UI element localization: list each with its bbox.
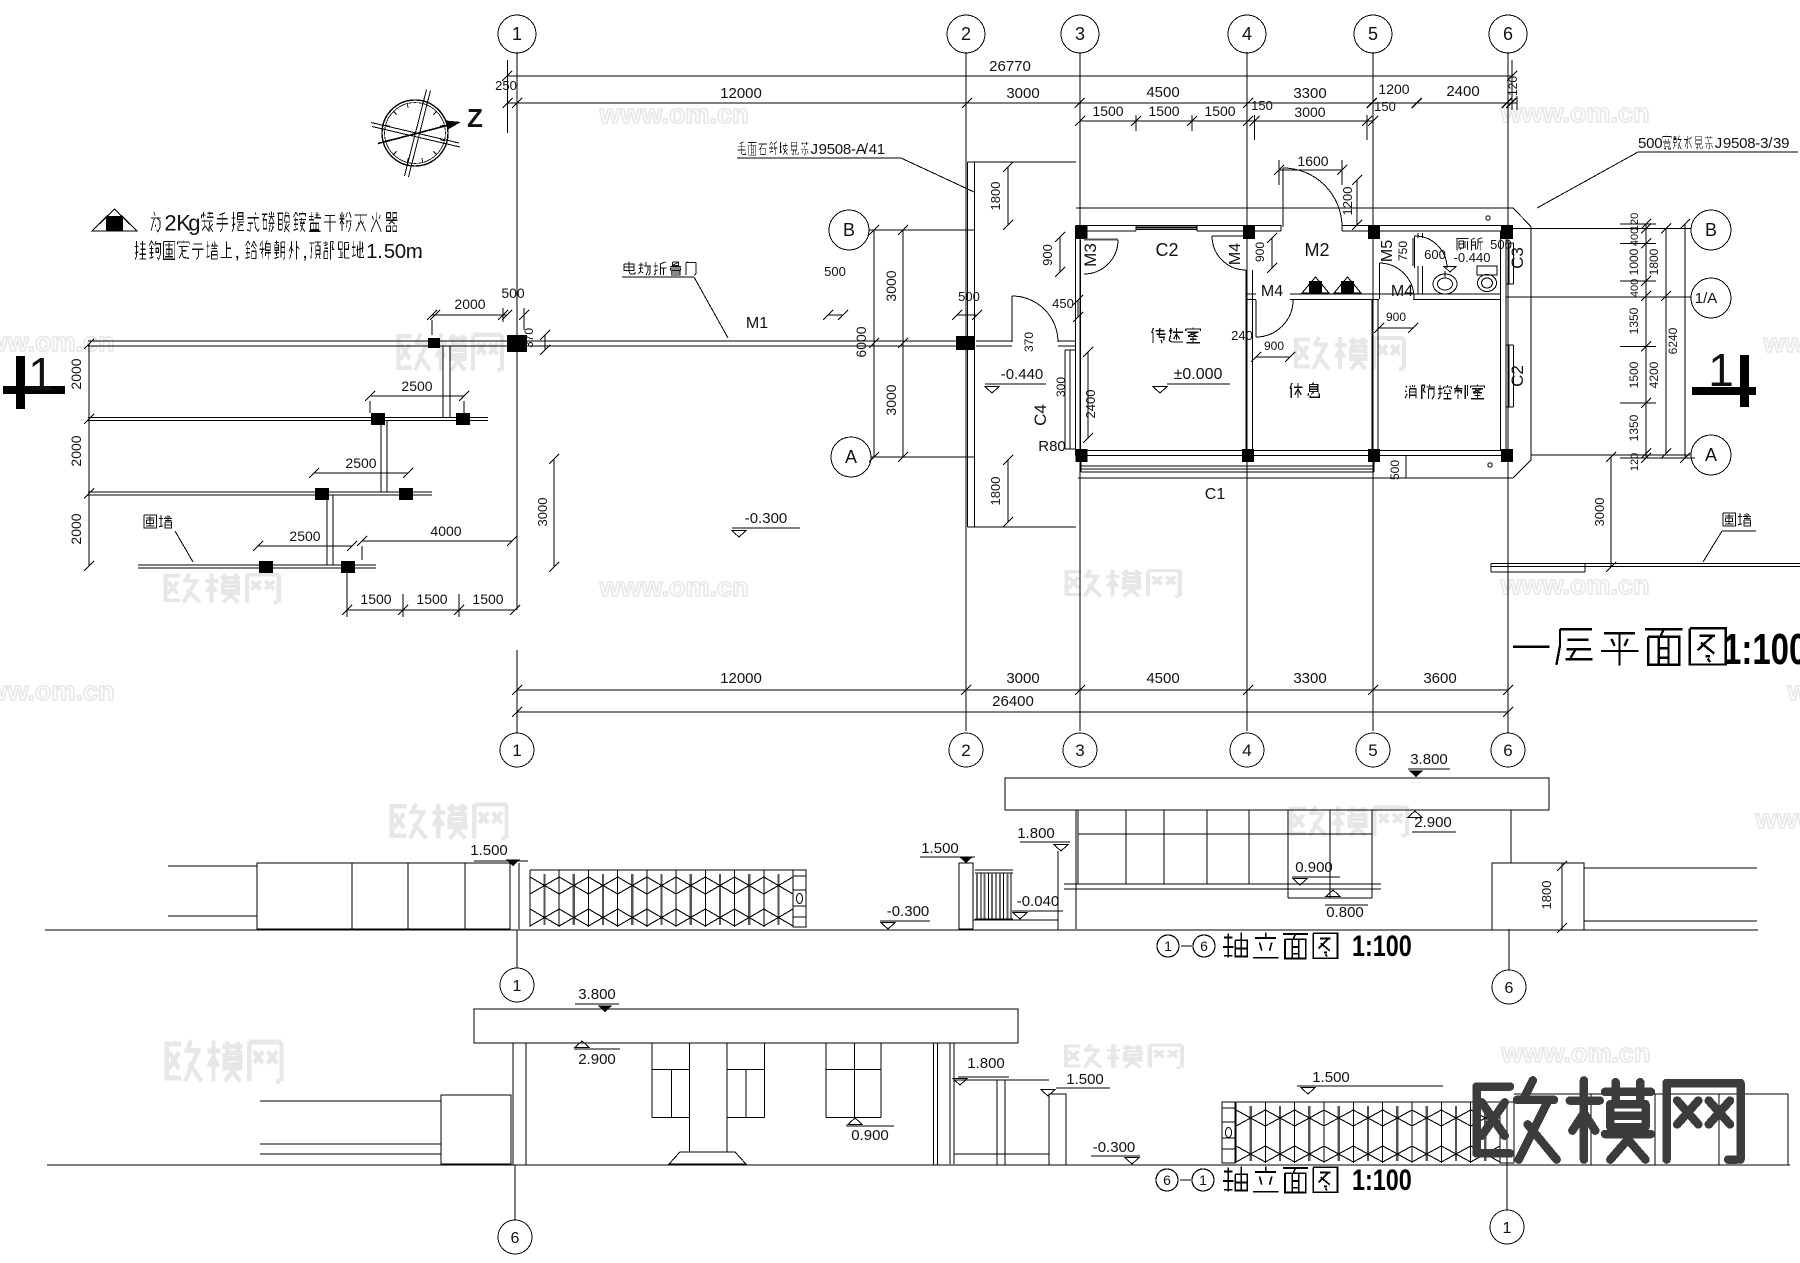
- svg-text:5: 5: [1731, 135, 1739, 152]
- svg-text:2500: 2500: [345, 455, 376, 471]
- svg-text:C4: C4: [1031, 404, 1050, 426]
- svg-text:3000: 3000: [883, 270, 899, 301]
- svg-text:M4: M4: [1391, 283, 1413, 300]
- svg-text:Z: Z: [467, 103, 483, 133]
- svg-text:,: ,: [302, 240, 308, 263]
- svg-text:C1: C1: [1205, 486, 1226, 503]
- title elev1: [1157, 935, 1179, 957]
- svg-text:M4: M4: [1227, 243, 1244, 265]
- svg-text:5: 5: [1368, 24, 1378, 44]
- left fence band: [168, 865, 257, 867]
- svg-text:1: 1: [877, 141, 885, 158]
- svg-text:1500: 1500: [1204, 103, 1235, 119]
- svg-text:3: 3: [1075, 741, 1084, 760]
- svg-text:2: 2: [961, 741, 970, 760]
- svg-text:8: 8: [1747, 135, 1755, 152]
- svg-text:1: 1: [512, 24, 522, 44]
- svg-text:3: 3: [1760, 135, 1768, 152]
- svg-text:M1: M1: [746, 315, 768, 332]
- title elev2: [1156, 1169, 1178, 1191]
- accordion gate 2 (elev2): [1236, 1101, 1500, 1103]
- svg-text:6: 6: [1505, 980, 1514, 997]
- svg-text:3.800: 3.800: [578, 986, 616, 1003]
- svg-text:.: .: [417, 240, 423, 263]
- svg-text:1350: 1350: [1627, 414, 1641, 441]
- svg-text:1: 1: [512, 741, 521, 760]
- svg-text:2000: 2000: [68, 435, 84, 466]
- svg-text:,: ,: [234, 240, 240, 263]
- watermark 欧模网 row5: [167, 1041, 282, 1082]
- svg-text:1000: 1000: [1627, 248, 1641, 275]
- svg-text:3300: 3300: [1293, 670, 1326, 687]
- hall south walls y294/299.5: [1246, 293, 1256, 295]
- svg-text:B: B: [1705, 220, 1717, 240]
- window C2 north wall: [1136, 226, 1197, 228]
- svg-text:1500: 1500: [1627, 361, 1641, 388]
- leader 500宽散水: [1638, 135, 1789, 152]
- svg-text:3000: 3000: [1006, 670, 1039, 687]
- svg-text:2500: 2500: [289, 528, 320, 544]
- svg-text:1500: 1500: [1092, 103, 1123, 119]
- svg-text:1500: 1500: [416, 591, 447, 607]
- svg-text:0: 0: [1646, 135, 1654, 152]
- interior wall between 传达室 and hall: [1245, 233, 1247, 236]
- leader 毛面石斜坡: [737, 141, 885, 158]
- columns (black) plan: [1076, 225, 1088, 239]
- north arrow compass: [382, 100, 448, 166]
- rain pipe elev2: [949, 1043, 951, 1164]
- extinguishers on wall: [1302, 277, 1329, 293]
- svg-text:www.om.cn: www.om.cn: [1754, 804, 1800, 834]
- toilet fixtures: [1433, 274, 1457, 294]
- svg-text:www.om.cn: www.om.cn: [1499, 570, 1649, 600]
- left B/A axis circles: [829, 210, 869, 250]
- svg-text:www.om.cn: www.om.cn: [1762, 328, 1800, 358]
- section mark left: [16, 356, 25, 409]
- svg-text:-0.440: -0.440: [1001, 366, 1044, 383]
- svg-text:240: 240: [1231, 328, 1253, 343]
- svg-text:1/A: 1/A: [1695, 290, 1718, 307]
- svg-text:1: 1: [1164, 938, 1172, 954]
- svg-text:5: 5: [384, 240, 395, 263]
- svg-text:1: 1: [513, 978, 522, 995]
- svg-text:9: 9: [819, 141, 827, 158]
- svg-text:0: 0: [1654, 135, 1662, 152]
- svg-text:1500: 1500: [1148, 103, 1179, 119]
- svg-text:1: 1: [1503, 1220, 1512, 1237]
- right axis circles + dims: [1512, 228, 1691, 230]
- porch rects left of building: [967, 162, 969, 527]
- canopy: [474, 1009, 1018, 1043]
- svg-text:2000: 2000: [68, 358, 84, 389]
- svg-text:J: J: [1715, 135, 1723, 152]
- svg-text:4: 4: [869, 141, 877, 158]
- svg-text:0: 0: [835, 141, 843, 158]
- svg-text:370: 370: [522, 328, 536, 348]
- svg-text:1500: 1500: [360, 591, 391, 607]
- axis leaders elev2: [514, 1165, 516, 1220]
- svg-text:500: 500: [1388, 460, 1402, 480]
- svg-text:0.900: 0.900: [851, 1127, 889, 1144]
- big logo 欧模网 bottom right: [1477, 1080, 1741, 1159]
- svg-text:M4: M4: [1261, 283, 1283, 300]
- svg-text:1800: 1800: [1539, 881, 1554, 910]
- svg-text:A: A: [1705, 445, 1717, 465]
- svg-text:6: 6: [1200, 938, 1208, 954]
- svg-text:9: 9: [1781, 135, 1789, 152]
- svg-text:3000: 3000: [1294, 104, 1325, 120]
- building outer walls: [1076, 225, 1281, 227]
- svg-text:www.om.cn: www.om.cn: [0, 327, 115, 357]
- svg-text:R80: R80: [1038, 438, 1066, 455]
- svg-text:3300: 3300: [1293, 85, 1326, 102]
- svg-text:1800: 1800: [988, 182, 1003, 211]
- toilet west wall + M5: [1417, 233, 1419, 238]
- svg-text:600: 600: [1424, 247, 1446, 262]
- svg-text:370: 370: [1022, 332, 1036, 352]
- svg-text:4: 4: [1242, 24, 1252, 44]
- svg-text:12000: 12000: [720, 670, 762, 687]
- svg-text:3000: 3000: [1592, 498, 1607, 527]
- watermark 欧模网 row4: [392, 804, 507, 839]
- svg-text:3000: 3000: [883, 384, 899, 415]
- svg-text:1600: 1600: [1297, 153, 1328, 169]
- svg-text:1800: 1800: [988, 477, 1003, 506]
- svg-text:1.500: 1.500: [1066, 1071, 1104, 1088]
- svg-text:3: 3: [1075, 24, 1085, 44]
- svg-text:2400: 2400: [1083, 390, 1098, 419]
- svg-text:0.900: 0.900: [1295, 859, 1333, 876]
- svg-text:900: 900: [1386, 310, 1406, 324]
- M2 entrance door: [1282, 168, 1284, 227]
- svg-text:M2: M2: [1304, 240, 1329, 260]
- svg-text:4000: 4000: [430, 523, 461, 539]
- svg-text:6: 6: [1503, 741, 1512, 760]
- dim chain 3 (1500x3 / 150 3000 150): [1080, 120, 1373, 122]
- svg-text:6: 6: [1163, 1172, 1171, 1188]
- svg-text:1350: 1350: [1627, 307, 1641, 334]
- svg-text:1200: 1200: [1378, 81, 1409, 97]
- window group 1 (elev2): [651, 1043, 653, 1118]
- door M4 into 休息: [1255, 300, 1257, 337]
- svg-text:C2: C2: [1155, 240, 1178, 260]
- svg-text:4500: 4500: [1146, 84, 1179, 101]
- svg-text:1500: 1500: [472, 591, 503, 607]
- left dim chain 2000x3: [88, 344, 90, 566]
- grid circles top: [498, 15, 536, 53]
- svg-text:9: 9: [1723, 135, 1731, 152]
- svg-text:900: 900: [1040, 244, 1055, 266]
- svg-text:1: 1: [366, 240, 377, 263]
- watermark 欧模网 row2: [399, 334, 502, 371]
- svg-text:120: 120: [1629, 453, 1641, 471]
- svg-text:6000: 6000: [853, 326, 869, 357]
- window group 2 (elev2): [825, 1043, 827, 1118]
- svg-text:2: 2: [164, 210, 176, 235]
- svg-text:0.800: 0.800: [1326, 904, 1364, 921]
- apron (散水): [1076, 207, 1513, 209]
- svg-text:2400: 2400: [1446, 83, 1479, 100]
- fence band right of gate elev2: [1514, 1093, 1788, 1095]
- room labels: [1152, 328, 1201, 344]
- accordion gate 1: [530, 869, 793, 871]
- svg-text:J: J: [811, 141, 819, 158]
- top dimension line 26770: [507, 75, 1512, 77]
- svg-text:900: 900: [1253, 242, 1267, 262]
- svg-text:-0.040: -0.040: [1017, 893, 1060, 910]
- svg-text:2.900: 2.900: [578, 1051, 616, 1068]
- svg-text:26770: 26770: [989, 58, 1031, 75]
- svg-text:6: 6: [511, 1230, 520, 1247]
- left fence rails + block: [260, 1100, 441, 1102]
- 围墙 right + wall: [1491, 563, 1800, 565]
- svg-text:B: B: [843, 220, 855, 240]
- svg-text:2000: 2000: [454, 296, 485, 312]
- 围墙 label left: [144, 515, 172, 528]
- small gate post + barred gate: [959, 863, 973, 929]
- dim chain 2: [507, 102, 1517, 104]
- svg-text:1: 1: [28, 348, 54, 400]
- dim 2000 and 500 at M1: [432, 314, 507, 316]
- svg-text:C2: C2: [1508, 365, 1527, 387]
- svg-text:-0.300: -0.300: [745, 510, 788, 527]
- windows C3 and C2 east wall: [1508, 243, 1510, 284]
- svg-text:1:100: 1:100: [1723, 626, 1800, 675]
- svg-text:6240: 6240: [1666, 327, 1680, 354]
- svg-text:3: 3: [1773, 135, 1781, 152]
- svg-text:400: 400: [1629, 279, 1641, 297]
- door M4 into 消防控制室: [1379, 263, 1381, 299]
- svg-text:4500: 4500: [1146, 670, 1179, 687]
- C1 projecting window south: [1081, 465, 1374, 467]
- svg-text:8: 8: [843, 141, 851, 158]
- svg-text:A: A: [845, 447, 857, 467]
- svg-text:5: 5: [827, 141, 835, 158]
- forecourt door + level: [1011, 296, 1013, 342]
- svg-text:5: 5: [1368, 741, 1377, 760]
- svg-text:-0.440: -0.440: [1454, 250, 1491, 265]
- svg-text:3600: 3600: [1423, 670, 1456, 687]
- svg-text:2500: 2500: [401, 378, 432, 394]
- svg-text:500: 500: [958, 289, 980, 304]
- svg-text:www.om.cn: www.om.cn: [1499, 98, 1649, 128]
- svg-text:4: 4: [1242, 741, 1251, 760]
- svg-text:www.om.cn: www.om.cn: [0, 676, 115, 706]
- svg-text:1.500: 1.500: [1312, 1069, 1350, 1086]
- svg-text:1.800: 1.800: [1017, 825, 1055, 842]
- svg-text:5: 5: [1638, 135, 1646, 152]
- svg-text:250: 250: [495, 78, 517, 93]
- svg-text:2000: 2000: [68, 513, 84, 544]
- M1 gate line (电动折叠门): [88, 340, 956, 342]
- svg-text:900: 900: [1264, 339, 1284, 353]
- svg-text:C3: C3: [1508, 247, 1527, 269]
- 6000 dim: [873, 230, 875, 457]
- svg-text:1: 1: [1708, 344, 1734, 396]
- svg-text:1.500: 1.500: [921, 840, 959, 857]
- title 一层平面图 1:100: [1513, 628, 1726, 665]
- svg-text:www.om.cn: www.om.cn: [1500, 1038, 1650, 1068]
- watermark 欧模网 row3: [165, 574, 278, 603]
- svg-text:1.800: 1.800: [967, 1055, 1005, 1072]
- column under canopy elev2: [512, 1043, 514, 1165]
- svg-text:12000: 12000: [720, 85, 762, 102]
- svg-text:-0.300: -0.300: [1093, 1139, 1136, 1156]
- svg-text:1: 1: [1199, 1172, 1207, 1188]
- fire extinguisher legend: [92, 209, 137, 231]
- svg-text:M5: M5: [1379, 240, 1396, 262]
- svg-text:±0.000: ±0.000: [1174, 366, 1223, 383]
- svg-text:750: 750: [1396, 241, 1410, 261]
- svg-text:120: 120: [1506, 76, 1520, 96]
- svg-text:300: 300: [1054, 377, 1068, 397]
- svg-text:500: 500: [501, 285, 525, 301]
- pedestal under column (elev2): [669, 1152, 746, 1164]
- svg-text:4200: 4200: [1647, 361, 1661, 388]
- M3 door: [1084, 238, 1118, 240]
- svg-text:1:100: 1:100: [1352, 1163, 1412, 1196]
- svg-text:1200: 1200: [1340, 187, 1355, 216]
- svg-text:1800: 1800: [1647, 248, 1661, 275]
- svg-text:1:100: 1:100: [1352, 929, 1412, 962]
- svg-text:www.om.cn: www.om.cn: [1786, 676, 1800, 706]
- svg-text:www.om.cn: www.om.cn: [598, 572, 748, 602]
- svg-text:3.800: 3.800: [1410, 751, 1448, 768]
- svg-text:2: 2: [961, 24, 971, 44]
- svg-text:3000: 3000: [1006, 85, 1039, 102]
- svg-text:3000: 3000: [535, 498, 550, 527]
- grid5 interior wall: [1371, 300, 1373, 449]
- svg-text:450: 450: [1052, 296, 1074, 311]
- building right wall elev2: [933, 1043, 935, 1165]
- svg-text:-0.300: -0.300: [887, 903, 930, 920]
- left stepped fence: [88, 417, 488, 419]
- svg-text:1.500: 1.500: [470, 842, 508, 859]
- bottom dim chains of plan: [517, 689, 1508, 691]
- axis leaders elev1: [516, 930, 518, 968]
- svg-text:0: 0: [1739, 135, 1747, 152]
- svg-text:M3: M3: [1081, 243, 1100, 267]
- svg-text:0: 0: [395, 240, 406, 263]
- svg-text:26400: 26400: [992, 693, 1034, 710]
- svg-text:g: g: [188, 210, 200, 235]
- svg-text:6: 6: [1503, 24, 1513, 44]
- window C4 west wall: [1064, 350, 1066, 449]
- door M4 top (into 传达室): [1212, 235, 1246, 237]
- building elevation 1: [1005, 778, 1549, 810]
- section mark right: [1740, 355, 1749, 407]
- svg-text:500: 500: [824, 264, 846, 279]
- 3000/3000 dim: [902, 230, 904, 457]
- svg-text:2.900: 2.900: [1414, 814, 1452, 831]
- svg-text:.: .: [377, 240, 383, 263]
- svg-text:150: 150: [1374, 99, 1396, 114]
- svg-text:150: 150: [1251, 98, 1273, 113]
- fence bottom dims 4000/1500: [362, 540, 512, 542]
- ground line: [45, 929, 1758, 931]
